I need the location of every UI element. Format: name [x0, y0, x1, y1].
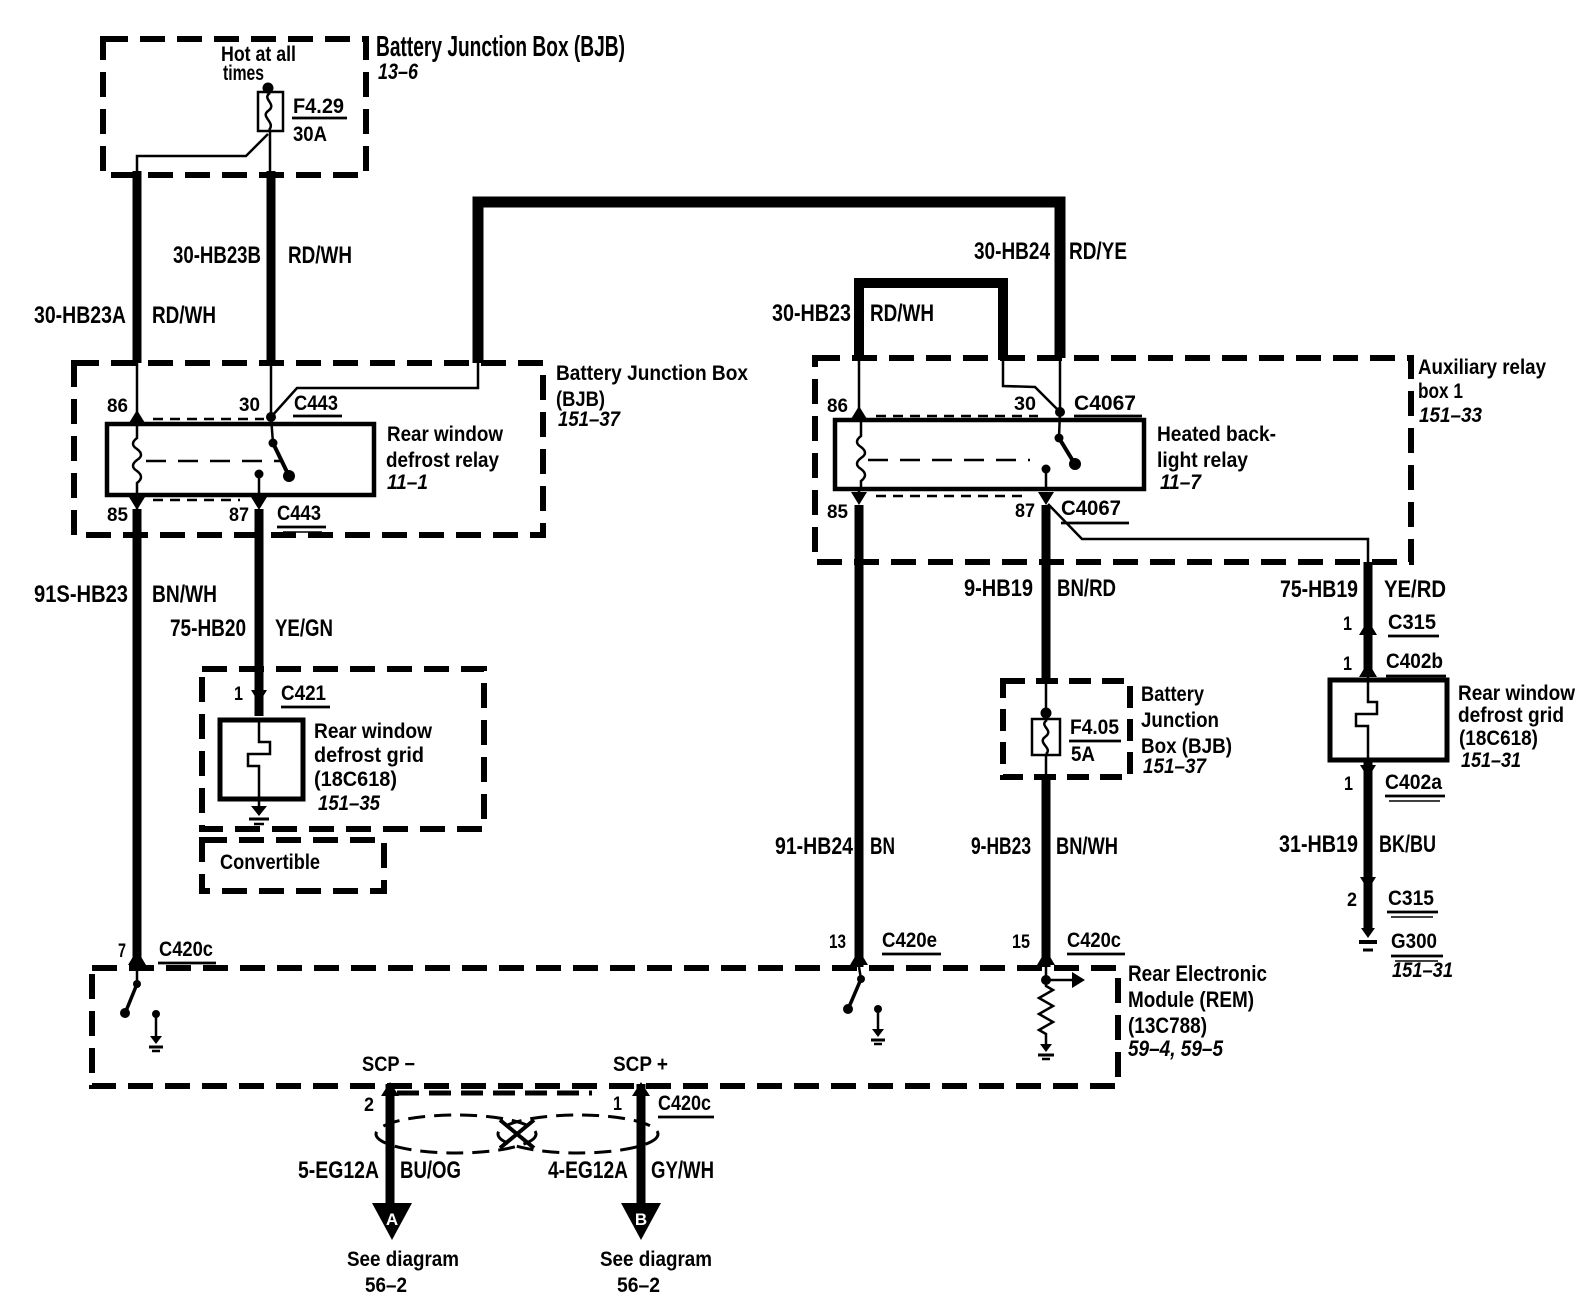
- svg-text:Battery Junction Box: Battery Junction Box: [556, 362, 748, 385]
- svg-text:YE/RD: YE/RD: [1384, 576, 1446, 603]
- svg-text:F4.05: F4.05: [1070, 716, 1119, 739]
- svg-text:31-HB19: 31-HB19: [1279, 831, 1358, 858]
- wire 9-HB23 BN/WH fuse to REM pin15: [1042, 777, 1051, 967]
- svg-text:BN/WH: BN/WH: [1056, 833, 1118, 860]
- text wire label 5-EG12A: [298, 1157, 379, 1184]
- text label Convertible: [220, 851, 320, 874]
- text pin 13: [829, 932, 846, 953]
- text label times: [223, 62, 264, 85]
- svg-text:C315: C315: [1388, 887, 1434, 910]
- svg-text:C420e: C420e: [882, 929, 937, 952]
- svg-text:RD/WH: RD/WH: [870, 300, 934, 327]
- svg-text:defrost grid: defrost grid: [1458, 704, 1564, 727]
- svg-text:75-HB19: 75-HB19: [1280, 576, 1358, 603]
- svg-text:30-HB23: 30-HB23: [772, 300, 851, 327]
- rear window defrost grid element box left: [220, 720, 303, 799]
- text wire label 30-HB24: [974, 238, 1051, 265]
- text wire color BN/WH l: [152, 581, 217, 608]
- connector C4067 dashed line bottom: [876, 495, 1022, 498]
- text pin 87 left: [229, 505, 249, 526]
- svg-text:SCP −: SCP −: [362, 1053, 415, 1076]
- text wire color RD/WH a: [152, 302, 216, 329]
- wire fuse branch to left rail: [137, 134, 268, 176]
- relay heated backlight relay body: [835, 420, 1144, 489]
- svg-text:B: B: [635, 1210, 647, 1229]
- svg-text:87: 87: [1015, 501, 1035, 522]
- text pin 1 C315: [1343, 614, 1352, 635]
- text wire label 75-HB19: [1280, 576, 1358, 603]
- svg-text:C402a: C402a: [1385, 771, 1442, 794]
- text pin 86 right: [827, 396, 848, 417]
- text title BJB 13-6 line2: [378, 59, 419, 84]
- svg-text:C420c: C420c: [159, 938, 213, 961]
- pin 1 C315 arrow: [1359, 620, 1439, 636]
- text fuse label 30A: [293, 123, 327, 146]
- svg-text:Battery: Battery: [1141, 683, 1204, 706]
- svg-text:RD/WH: RD/WH: [152, 302, 216, 329]
- wire bus thick top run to auxiliary relay box: [478, 202, 1060, 363]
- svg-text:151–31: 151–31: [1392, 959, 1453, 982]
- wire thin link bus to pin 30 C443: [271, 360, 478, 417]
- text note see diagram B2: [617, 1274, 660, 1297]
- underline C420c scp: [658, 1116, 714, 1119]
- text title REM line4: [1128, 1036, 1224, 1061]
- wire 91-HB24 BN pin85 to REM pin13: [855, 505, 864, 967]
- relay coil right: [857, 420, 865, 489]
- svg-text:See diagram: See diagram: [600, 1248, 712, 1271]
- text pin 87 right: [1015, 501, 1035, 522]
- text conn C443 bottom: [277, 502, 321, 525]
- text wire color RD/WH c: [870, 300, 934, 327]
- node pin30 C4067 junction: [1055, 407, 1065, 417]
- Battery Junction Box (BJB) 13-6 dashed enclosure: [103, 39, 366, 175]
- svg-text:30-HB23B: 30-HB23B: [173, 242, 261, 269]
- text wire color GY/WH: [651, 1157, 714, 1184]
- svg-text:151–35: 151–35: [318, 792, 380, 815]
- svg-text:30: 30: [239, 395, 260, 416]
- wire 30-HB23 RD/WH loop: [859, 283, 1003, 360]
- text wire color BN/RD: [1057, 575, 1116, 602]
- svg-text:(18C618): (18C618): [314, 768, 397, 791]
- text pin 1 C421: [234, 684, 243, 705]
- text relay2 title line2: [1157, 449, 1248, 472]
- pin 87 arrow: [251, 497, 267, 510]
- svg-text:30-HB24: 30-HB24: [974, 238, 1051, 265]
- svg-text:13–6: 13–6: [378, 59, 419, 84]
- wire 30-HB23B RD/WH thick rail: [267, 171, 276, 363]
- REM pin 7 internal ground: [149, 1010, 163, 1051]
- text pin 2 scp: [364, 1095, 374, 1116]
- svg-text:See diagram: See diagram: [347, 1248, 459, 1271]
- connector C421 arrow: [251, 688, 267, 716]
- wire thin pin 87 to 75-HB19 branch: [1048, 504, 1368, 562]
- wire fuse bottom stub: [269, 131, 272, 176]
- text wire color YE/GN: [275, 615, 333, 642]
- node pin30 C443 junction: [266, 412, 276, 422]
- text conn C420c pin7: [159, 938, 213, 961]
- svg-text:box 1: box 1: [1418, 380, 1463, 403]
- Auxiliary relay box 1 dashed enclosure: [815, 358, 1411, 562]
- rear window defrost grid element box right: [1330, 680, 1447, 760]
- svg-text:11–7: 11–7: [1160, 471, 1202, 494]
- wire 91S-HB23 BN/WH pin85 to REM pin7: [133, 509, 142, 967]
- text conn C420e: [882, 929, 937, 952]
- underline F4.29: [292, 117, 347, 120]
- text grid R title line1: [1458, 682, 1576, 705]
- svg-text:C443: C443: [294, 392, 338, 415]
- svg-text:light relay: light relay: [1157, 449, 1248, 472]
- text ref G300 151-31: [1392, 959, 1453, 982]
- text conn C420c pin15: [1067, 929, 1121, 952]
- svg-text:85: 85: [827, 502, 848, 523]
- text title REM line3: [1128, 1013, 1207, 1038]
- relay coil left: [133, 424, 141, 495]
- Rear Electronic Module REM dashed enclosure: [92, 968, 1118, 1086]
- pin 2 C315 arrow: [1360, 877, 1438, 917]
- text conn C402a: [1385, 771, 1442, 794]
- text wire color RD/WH b: [288, 242, 352, 269]
- svg-text:C4067: C4067: [1074, 392, 1136, 415]
- pin 85 arrow: [129, 495, 145, 510]
- text title BJB 151-37 line2: [556, 388, 605, 411]
- wire thin bus end to pin 30 C4067: [1059, 358, 1062, 412]
- text conn C4067 top: [1074, 392, 1136, 415]
- text conn C4067 bottom: [1061, 497, 1121, 520]
- text title BJB 151-37 line1: [556, 362, 748, 385]
- svg-text:2: 2: [1347, 890, 1357, 911]
- relay pin 87 contact left: [255, 470, 264, 496]
- wire 31-HB19 BK/BU and C402a arrow: [1360, 760, 1445, 928]
- svg-text:9-HB19: 9-HB19: [964, 575, 1033, 602]
- text fuse label 5A: [1071, 743, 1095, 766]
- text relay title line1: [387, 423, 504, 446]
- underline C443 top: [293, 415, 342, 418]
- svg-text:5A: 5A: [1071, 743, 1095, 766]
- svg-text:C443: C443: [277, 502, 321, 525]
- text fuse label F4.05: [1070, 716, 1119, 739]
- text conn C315 top: [1388, 611, 1436, 634]
- underline C4067 top: [1074, 415, 1142, 418]
- svg-text:GY/WH: GY/WH: [651, 1157, 714, 1184]
- text relay title line2: [386, 449, 499, 472]
- svg-text:11–1: 11–1: [387, 471, 428, 494]
- text wire label 9-HB23: [971, 833, 1031, 860]
- wire thin loop end to pin 30 C4067: [1003, 360, 1060, 412]
- text wire color BK/BU: [1379, 831, 1436, 858]
- relay switch left: [269, 417, 296, 482]
- REM pin 15 internal resistor to ground: [1038, 980, 1054, 1059]
- svg-text:Heated back-: Heated back-: [1157, 423, 1276, 446]
- text label SCP plus: [613, 1053, 668, 1076]
- svg-text:C315: C315: [1388, 611, 1436, 634]
- text title REM line2: [1128, 987, 1254, 1012]
- connector C443 dashed line top: [153, 418, 264, 421]
- underline C421: [281, 706, 330, 709]
- svg-text:BU/OG: BU/OG: [400, 1157, 461, 1184]
- svg-text:Auxiliary relay: Auxiliary relay: [1418, 356, 1546, 379]
- text relay2 title line1: [1157, 423, 1276, 446]
- svg-text:BN/WH: BN/WH: [152, 581, 217, 608]
- svg-text:151–33: 151–33: [1419, 404, 1482, 427]
- text grid L title line2: [314, 744, 424, 767]
- text pin 1 scp: [613, 1094, 622, 1115]
- text label Hot at all: [221, 43, 296, 66]
- svg-text:2: 2: [364, 1095, 374, 1116]
- svg-text:G300: G300: [1391, 930, 1437, 953]
- text conn C420c scp: [658, 1092, 711, 1115]
- text fuse label F4.29: [293, 95, 344, 118]
- text title fuse BJB line2: [1141, 709, 1219, 732]
- wire 30-HB23A RD/WH thick left rail: [133, 171, 142, 363]
- text wire label 30-HB23: [772, 300, 851, 327]
- svg-text:C420c: C420c: [658, 1092, 711, 1115]
- text title REM line1: [1128, 961, 1267, 986]
- svg-text:Rear window: Rear window: [1458, 682, 1576, 705]
- text title BJB 151-37 line3: [558, 408, 621, 431]
- connector C4067 dashed line top: [876, 415, 1038, 418]
- text title BJB 13-6 line1: [376, 31, 625, 63]
- underline F4.05: [1069, 740, 1121, 743]
- rear window defrost grid dashed enclosure 151-35: [202, 669, 484, 829]
- text label SCP minus: [362, 1053, 415, 1076]
- svg-text:56–2: 56–2: [365, 1274, 407, 1297]
- svg-text:RD/YE: RD/YE: [1069, 238, 1127, 265]
- pin 13 arrow and underline C420e: [850, 950, 941, 965]
- svg-text:7: 7: [118, 941, 126, 962]
- svg-text:5-EG12A: 5-EG12A: [298, 1157, 379, 1184]
- wire SCP+ pin 1 4-EG12A GY/WH: [632, 1082, 650, 1207]
- text wire color BN: [870, 833, 895, 860]
- text wire label 75-HB20: [170, 615, 246, 642]
- svg-text:59–4, 59–5: 59–4, 59–5: [1128, 1036, 1224, 1061]
- wire 30-HB23A thin segment to pin 86: [136, 363, 139, 424]
- svg-text:15: 15: [1012, 932, 1030, 953]
- svg-text:75-HB20: 75-HB20: [170, 615, 246, 642]
- fuse F4.05: [1032, 681, 1060, 777]
- pin 7 arrow and underline C420c: [128, 950, 216, 965]
- text grid R title line3: [1459, 727, 1538, 750]
- svg-text:C421: C421: [281, 682, 326, 705]
- pin 85 arrow right: [851, 489, 867, 505]
- svg-text:C420c: C420c: [1067, 929, 1121, 952]
- text grid L title line3: [314, 768, 397, 791]
- svg-text:SCP +: SCP +: [613, 1053, 668, 1076]
- relay switch right: [1055, 412, 1082, 470]
- svg-text:9-HB23: 9-HB23: [971, 833, 1031, 860]
- svg-text:Junction: Junction: [1141, 709, 1219, 732]
- text note see diagram B1: [600, 1248, 712, 1271]
- text note see diagram A1: [347, 1248, 459, 1271]
- svg-text:RD/WH: RD/WH: [288, 242, 352, 269]
- svg-text:30-HB23A: 30-HB23A: [34, 302, 126, 329]
- Battery Junction Box (BJB) 151-37 dashed enclosure: [74, 363, 543, 535]
- REM pin 15 internal sense tap: [1041, 967, 1085, 988]
- text title aux relay line1: [1418, 356, 1546, 379]
- fuse F4.29: [258, 83, 283, 132]
- text title fuse BJB line4: [1143, 755, 1207, 778]
- wire 9-HB19 BN/RD pin87 to fuse F4.05: [1042, 505, 1051, 681]
- text conn G300: [1391, 930, 1437, 953]
- wire into right grid: [1367, 676, 1370, 682]
- text grid L title line1: [314, 720, 433, 743]
- svg-text:1: 1: [613, 1094, 622, 1115]
- text grid R title line2: [1458, 704, 1564, 727]
- svg-text:defrost relay: defrost relay: [386, 449, 499, 472]
- text wire color RD/YE: [1069, 238, 1127, 265]
- svg-text:BK/BU: BK/BU: [1379, 831, 1436, 858]
- relay dashed actuation link left: [146, 460, 282, 463]
- text conn C402b: [1386, 650, 1443, 673]
- svg-text:56–2: 56–2: [617, 1274, 660, 1297]
- text wire label 91S-HB23: [34, 581, 128, 608]
- text wire label 30-HB23B: [173, 242, 261, 269]
- pin 87 arrow right: [1038, 492, 1054, 505]
- grid element left: [248, 721, 270, 798]
- text title aux relay line3: [1419, 404, 1482, 427]
- svg-text:86: 86: [107, 396, 128, 417]
- text pin 30 left: [239, 395, 260, 416]
- svg-text:Convertible: Convertible: [220, 851, 320, 874]
- text conn C443 top: [294, 392, 338, 415]
- svg-text:91-HB24: 91-HB24: [775, 833, 854, 860]
- text note see diagram A2: [365, 1274, 407, 1297]
- text wire label 31-HB19: [1279, 831, 1358, 858]
- pin 1 C402b arrow: [1359, 662, 1446, 681]
- wire SCP- pin 2 5-EG12A BU/OG: [381, 1082, 399, 1207]
- pin 86 arrow: [129, 410, 145, 423]
- svg-text:defrost grid: defrost grid: [314, 744, 424, 767]
- text pin 85 right: [827, 502, 848, 523]
- svg-text:(13C788): (13C788): [1128, 1013, 1207, 1038]
- text pin 15: [1012, 932, 1030, 953]
- text relay title line3: [387, 471, 428, 494]
- relay pin 87 contact right: [1042, 465, 1051, 490]
- svg-text:30A: 30A: [293, 123, 327, 146]
- text wire label 30-HB23A: [34, 302, 126, 329]
- Battery Junction Box fuse dashed enclosure: [1003, 681, 1130, 777]
- svg-text:Rear Electronic: Rear Electronic: [1128, 961, 1267, 986]
- text wire color BU/OG: [400, 1157, 461, 1184]
- grid element right: [1356, 682, 1377, 758]
- text grid R title line4: [1461, 749, 1521, 772]
- svg-text:1: 1: [1343, 654, 1352, 675]
- svg-text:C402b: C402b: [1386, 650, 1443, 673]
- svg-text:86: 86: [827, 396, 848, 417]
- underline C443 bottom: [277, 527, 326, 532]
- svg-text:Module (REM): Module (REM): [1128, 987, 1254, 1012]
- text pin 2 C315: [1347, 890, 1357, 911]
- svg-text:13: 13: [829, 932, 846, 953]
- text grid L title line4: [318, 792, 380, 815]
- twisted pair symbol: [376, 1115, 658, 1153]
- wire 30-HB23B thin segment to pin 30: [270, 363, 273, 417]
- svg-text:(18C618): (18C618): [1459, 727, 1538, 750]
- svg-text:F4.29: F4.29: [293, 95, 344, 118]
- Convertible dashed box: [202, 840, 384, 891]
- ground G300: [1359, 928, 1443, 961]
- relay dashed actuation link right: [868, 459, 1030, 462]
- text conn C315 bottom: [1388, 887, 1434, 910]
- text title fuse BJB line1: [1141, 683, 1204, 706]
- text wire label 9-HB19: [964, 575, 1033, 602]
- text wire color YE/RD: [1384, 576, 1446, 603]
- svg-text:151–37: 151–37: [558, 408, 621, 431]
- text conn C421: [281, 682, 326, 705]
- svg-text:A: A: [386, 1210, 398, 1229]
- svg-text:YE/GN: YE/GN: [275, 615, 333, 642]
- svg-text:91S-HB23: 91S-HB23: [34, 581, 128, 608]
- text pin 1 C402b: [1343, 654, 1352, 675]
- text title fuse BJB line3: [1141, 735, 1232, 758]
- text wire label 91-HB24: [775, 833, 854, 860]
- off-page connector B: [621, 1203, 661, 1240]
- text pin 86 left: [107, 396, 128, 417]
- relay rear window defrost relay body: [107, 424, 374, 495]
- connector dashed line below REM: [397, 1091, 592, 1096]
- svg-text:C4067: C4067: [1061, 497, 1121, 520]
- text title aux relay line2: [1418, 380, 1463, 403]
- text pin 7: [118, 941, 126, 962]
- ground below left grid: [249, 798, 269, 824]
- svg-text:151–31: 151–31: [1461, 749, 1521, 772]
- svg-text:30: 30: [1014, 394, 1036, 415]
- svg-text:BN: BN: [870, 833, 895, 860]
- wire 75-HB19 YE/RD down right side: [1364, 562, 1373, 676]
- svg-text:times: times: [223, 62, 264, 85]
- text pin 85 left: [107, 505, 128, 526]
- REM pin 7 internal switch: [120, 967, 141, 1018]
- wire 75-HB20 YE/GN pin87 to grid: [255, 509, 264, 688]
- text pin 1 C402a: [1344, 774, 1353, 795]
- connector C443 dashed line bottom: [153, 499, 240, 502]
- underline C4067 bottom: [1061, 522, 1129, 525]
- svg-text:4-EG12A: 4-EG12A: [548, 1157, 628, 1184]
- svg-text:Rear window: Rear window: [387, 423, 504, 446]
- text wire label 4-EG12A: [548, 1157, 628, 1184]
- svg-text:151–37: 151–37: [1143, 755, 1207, 778]
- off-page connector A: [372, 1203, 412, 1240]
- REM pin 13 internal switch: [843, 967, 865, 1014]
- pin 86 arrow right: [851, 360, 867, 420]
- svg-text:Rear window: Rear window: [314, 720, 433, 743]
- svg-text:85: 85: [107, 505, 128, 526]
- svg-text:1: 1: [1344, 774, 1353, 795]
- svg-text:87: 87: [229, 505, 249, 526]
- svg-text:BN/RD: BN/RD: [1057, 575, 1116, 602]
- pin 15 arrow and underline C420c: [1037, 950, 1125, 965]
- text relay2 title line3: [1160, 471, 1202, 494]
- svg-text:1: 1: [1343, 614, 1352, 635]
- REM pin 13 internal ground: [871, 1005, 885, 1044]
- svg-text:1: 1: [234, 684, 243, 705]
- text wire color BN/WH r: [1056, 833, 1118, 860]
- text pin 30 right: [1014, 394, 1036, 415]
